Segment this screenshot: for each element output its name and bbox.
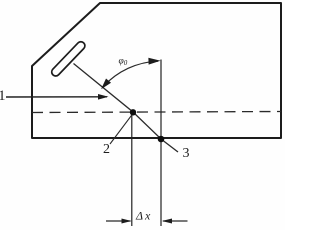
angle arc phi0 (103, 61, 158, 86)
svg-text:2: 2 (103, 142, 110, 157)
dimension arrow left (106, 220, 131, 222)
leader arrow 1 (6, 96, 107, 98)
vertical reference line through point 3 (160, 60, 162, 227)
slit aperture on bevel (50, 40, 87, 78)
dashed centerline (32, 112, 281, 113)
ray (diagonal line 2-3) (74, 64, 179, 153)
arc arrowhead lower (102, 79, 110, 88)
svg-text:φ0: φ0 (119, 57, 128, 68)
svg-text:Δx: Δx (135, 209, 151, 223)
arc arrowhead upper (149, 58, 159, 64)
vertical extension line below point 2 (131, 115, 133, 226)
point 3 (158, 136, 165, 143)
block outline (32, 3, 281, 138)
svg-text:1: 1 (0, 88, 5, 104)
point 2 (130, 109, 136, 115)
leader line for 2 (110, 115, 132, 144)
svg-text:3: 3 (183, 146, 190, 161)
dimension arrow right (163, 220, 188, 222)
